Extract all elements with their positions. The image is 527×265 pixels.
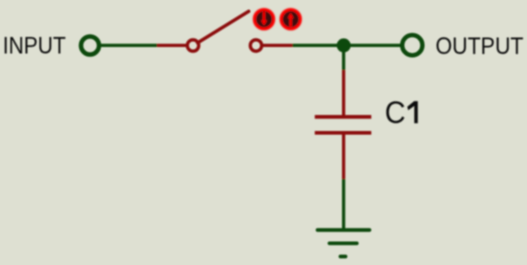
switch actuator button (toggle down)	[254, 10, 273, 29]
capacitor C1 top plate	[315, 115, 372, 119]
svg-text:INPUT: INPUT	[3, 33, 66, 60]
svg-text:OUTPUT: OUTPUT	[436, 33, 524, 60]
switch SW1 contact pin 1	[187, 40, 198, 51]
wire input terminal to switch	[101, 44, 157, 47]
wire switch to output	[293, 44, 402, 47]
capacitor C1 bottom plate	[315, 131, 372, 135]
wire switch pin 2 (red stub)	[263, 44, 293, 47]
terminal INPUT	[81, 37, 99, 55]
svg-text:C: C	[385, 94, 406, 130]
wire junction down (green)	[342, 45, 345, 70]
ground bar 3 (dash)	[341, 255, 346, 259]
ground bar 2	[330, 241, 357, 245]
wire switch pin 1 (red stub)	[157, 44, 187, 47]
switch actuator button (toggle up)	[281, 10, 300, 29]
ground bar 1	[318, 228, 370, 232]
switch SW1 lever (open)	[198, 11, 249, 43]
junction node	[337, 38, 351, 52]
wire capacitor to ground (green)	[342, 179, 345, 230]
capacitor C1 pin 2 (red)	[342, 133, 345, 179]
capacitor C1 pin 1 (red)	[342, 70, 345, 117]
terminal OUTPUT	[402, 35, 422, 55]
switch SW1 contact pin 2	[250, 40, 261, 51]
